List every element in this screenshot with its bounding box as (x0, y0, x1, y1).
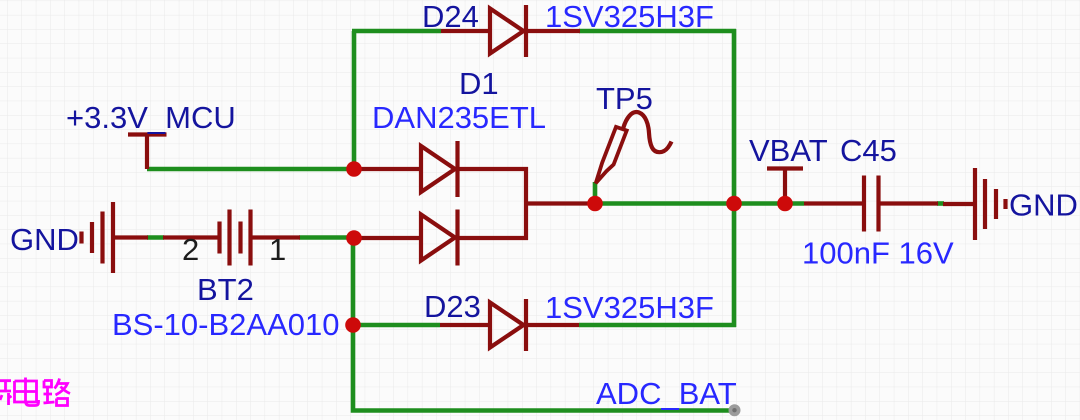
svg-text:D1: D1 (459, 66, 499, 101)
annotation 电源电路 partial magenta (0, 378, 70, 406)
wire left vertical riser to top row (352, 31, 357, 171)
wire tiny segment near right GND (937, 201, 944, 206)
wire +3.3V_MCU to node A (147, 167, 354, 172)
capacitor C45 (804, 176, 938, 232)
wire battery left green segment (147, 235, 164, 240)
power symbol VBAT (767, 169, 803, 205)
junction node D TP5 (587, 196, 603, 212)
wire main mid bus (595, 201, 804, 206)
junction node C (345, 317, 361, 333)
junction node B (346, 230, 362, 246)
wire right vertical bus (732, 29, 737, 327)
svg-text:1: 1 (269, 232, 286, 267)
wire TP5 stub (593, 182, 598, 204)
svg-text:DAN235ETL: DAN235ETL (372, 100, 546, 135)
wire D23 row left segment (353, 323, 440, 328)
wire ADC_BAT run (353, 238, 734, 411)
svg-text:100nF 16V: 100nF 16V (802, 236, 954, 271)
diode D24 (441, 5, 580, 57)
svg-text:C45: C45 (840, 133, 897, 168)
svg-text:BS-10-B2AA010: BS-10-B2AA010 (112, 307, 339, 342)
svg-text:D23: D23 (424, 289, 481, 324)
svg-text:2: 2 (182, 232, 199, 267)
diode D23 (440, 299, 579, 351)
svg-text:TP5: TP5 (596, 81, 653, 116)
svg-text:1SV325H3F: 1SV325H3F (545, 0, 714, 34)
test point TP5 (596, 112, 672, 183)
svg-text:GND: GND (10, 222, 79, 257)
wire battery right to node B (299, 235, 354, 240)
wire D23 row right segment (579, 323, 736, 328)
svg-text:1SV325H3F: 1SV325H3F (545, 290, 714, 325)
junction node A (346, 161, 362, 177)
ground symbol left GND (82, 202, 219, 273)
svg-text:GND: GND (1009, 188, 1078, 223)
no-connect endpoint dot (729, 404, 741, 416)
dual diode U D1 (355, 141, 596, 266)
svg-text:BT2: BT2 (197, 272, 254, 307)
battery BT2 (220, 210, 301, 266)
svg-text:+3.3V_MCU: +3.3V_MCU (66, 100, 236, 135)
ground symbol right GND (943, 168, 1006, 240)
junction node F VBAT (777, 196, 793, 212)
svg-text:VBAT: VBAT (749, 133, 828, 168)
svg-text:ADC_BAT: ADC_BAT (596, 376, 737, 411)
power symbol +3.3V_MCU (128, 135, 167, 170)
junction node E bus cross (726, 196, 742, 212)
wire top row left segment (352, 29, 441, 34)
svg-text:D24: D24 (422, 0, 479, 34)
wire top row right segment (579, 29, 736, 34)
